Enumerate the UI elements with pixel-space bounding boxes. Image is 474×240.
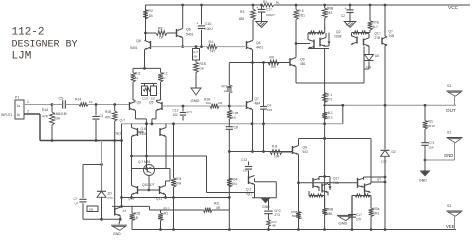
transistor Q13 bias xyxy=(137,186,139,194)
wire base Q8 to R4 line xyxy=(151,46,208,48)
svg-text:U6: U6 xyxy=(375,54,379,58)
svg-text:C10: C10 xyxy=(205,22,211,26)
svg-text:112-2: 112-2 xyxy=(12,27,45,39)
svg-text:R.1: R.1 xyxy=(327,93,332,97)
svg-text:1x1: 1x1 xyxy=(243,169,248,173)
svg-text:OUT: OUT xyxy=(446,108,456,113)
svg-text:21B8: 21B8 xyxy=(334,35,342,39)
svg-text:C?: C? xyxy=(74,197,78,201)
svg-text:R2L: R2L xyxy=(214,202,220,206)
resistor R16 xyxy=(51,105,53,113)
svg-text:Q-8: Q-8 xyxy=(141,127,147,131)
svg-text:P1: P1 xyxy=(15,96,19,100)
svg-text:GND: GND xyxy=(191,98,200,103)
svg-text:Q8: Q8 xyxy=(137,101,142,105)
resistor R31 xyxy=(369,208,374,217)
zener D2 xyxy=(381,150,390,156)
svg-text:S3: S3 xyxy=(447,204,451,208)
svg-text:Q1?: Q1? xyxy=(375,32,381,36)
GND terminal left xyxy=(119,219,120,224)
svg-text:Q9: Q9 xyxy=(300,58,305,62)
transistor Q18 output right xyxy=(364,184,366,193)
svg-text:Q.? MB1: Q.? MB1 xyxy=(138,160,151,164)
svg-text:5401: 5401 xyxy=(140,132,147,136)
svg-text:R?3: R?3 xyxy=(222,85,228,89)
svg-text:0R1V: 0R1V xyxy=(428,124,436,128)
VEE terminal xyxy=(447,210,463,212)
svg-text:4R: 4R xyxy=(216,206,221,210)
svg-text:10?: 10? xyxy=(356,218,362,222)
capacitor C2 rail bypass xyxy=(349,5,351,10)
trimmer wiring xyxy=(144,84,146,87)
transistor Q5 diff right xyxy=(156,99,161,102)
connector P1 input xyxy=(15,100,24,119)
ground solid zobel xyxy=(261,198,271,204)
VCC rail xyxy=(146,4,263,6)
svg-text:1B: 1B xyxy=(134,216,138,220)
svg-text:A?: A? xyxy=(123,209,127,213)
svg-text:C2: C2 xyxy=(341,14,345,18)
capacitor C12 xyxy=(182,106,184,112)
svg-text:(L)?: (L)? xyxy=(193,50,198,54)
bias node wire xyxy=(132,168,171,170)
svg-text:943: 943 xyxy=(303,150,309,154)
transistor Q17 output right xyxy=(357,178,359,188)
capacitor C15 on line xyxy=(348,214,356,216)
trimmer Q10 circle xyxy=(144,165,155,176)
svg-text:47K: 47K xyxy=(105,116,112,120)
resistor R17 chain xyxy=(227,110,232,119)
node base Q6 xyxy=(144,32,147,35)
svg-text:747: 747 xyxy=(210,50,216,54)
svg-text:R2B: R2B xyxy=(134,212,140,216)
svg-text:10A: 10A xyxy=(206,101,212,105)
svg-text:U?: U? xyxy=(377,178,381,182)
svg-text:C12: C12 xyxy=(173,109,179,113)
resistor R10 tail xyxy=(322,93,327,103)
resistor R2 xyxy=(143,10,148,20)
svg-text:1C?: 1C? xyxy=(381,160,387,164)
wire VAS corner to D1 xyxy=(363,69,365,83)
output RC chain x425 xyxy=(424,105,426,120)
resistor R9 xyxy=(268,60,279,65)
svg-text:Q11: Q11 xyxy=(156,196,162,200)
wire Q8d collector xyxy=(298,139,300,146)
wire right cluster emitter down xyxy=(351,196,353,230)
svg-text:103: 103 xyxy=(267,108,272,112)
capacitor C10 xyxy=(201,5,203,25)
svg-text:5401: 5401 xyxy=(130,46,138,50)
driver base line xyxy=(299,182,358,184)
transistor Q15 output left xyxy=(321,184,323,193)
resistor R25 xyxy=(227,178,232,187)
svg-text:R1: R1 xyxy=(164,212,168,216)
wire sensor down to OUT xyxy=(384,46,386,105)
svg-text:LJM: LJM xyxy=(12,51,32,63)
svg-text:Q1?: Q1? xyxy=(333,177,339,181)
svg-text:4401: 4401 xyxy=(256,46,263,50)
svg-text:1K: 1K xyxy=(89,100,93,104)
transistor Q9 xyxy=(289,58,291,66)
svg-text:4L1: 4L1 xyxy=(328,111,334,115)
ground GND mid xyxy=(191,88,201,95)
svg-text:5401: 5401 xyxy=(186,33,194,37)
wire Q8d emitter xyxy=(298,155,300,230)
bias emitter rail xyxy=(122,197,230,199)
svg-text:VCC: VCC xyxy=(448,5,459,11)
svg-text:104: 104 xyxy=(429,146,434,150)
resistor R15 xyxy=(114,105,116,112)
wire input bottom xyxy=(40,140,122,142)
svg-text:C4: C4 xyxy=(267,104,271,108)
node diff top xyxy=(143,67,146,70)
resistor R5 xyxy=(295,5,297,10)
resistor R4 xyxy=(207,44,217,49)
svg-text:R8: R8 xyxy=(158,27,162,31)
svg-text:+: + xyxy=(196,21,199,26)
left cluster loop xyxy=(319,176,330,178)
svg-text:R3a: R3a xyxy=(374,207,380,211)
svg-text:2?B: 2?B xyxy=(375,36,381,40)
svg-text:B1: B1 xyxy=(276,1,280,5)
svg-text:0L1: 0L1 xyxy=(328,116,334,120)
svg-text:Q5: Q5 xyxy=(149,101,154,105)
wire link out bus xyxy=(342,105,344,124)
svg-text:DESIGNER BY: DESIGNER BY xyxy=(12,40,78,51)
svg-text:5x: 5x xyxy=(135,76,139,80)
svg-text:R.2: R.2 xyxy=(162,72,167,76)
svg-text:4B: 4B xyxy=(272,224,276,228)
wire C8 chain down xyxy=(228,129,230,229)
svg-text:504: 504 xyxy=(232,182,238,186)
resistor R10b xyxy=(195,60,197,62)
svg-text:100: 100 xyxy=(271,65,277,69)
svg-text:GND: GND xyxy=(113,232,121,236)
svg-text:INPUT1: INPUT1 xyxy=(1,113,13,117)
svg-text:R4: R4 xyxy=(209,40,213,44)
svg-text:102: 102 xyxy=(173,113,179,117)
svg-text:C5: C5 xyxy=(59,97,64,101)
svg-text:DK: DK xyxy=(159,36,164,40)
svg-text:1B: 1B xyxy=(149,14,154,18)
resistor R22 xyxy=(131,221,133,230)
svg-text:U?: U? xyxy=(75,202,79,206)
svg-text:R.B: R.B xyxy=(272,145,277,149)
svg-text:C8: C8 xyxy=(234,126,238,130)
resistor R tail 2 xyxy=(322,112,327,119)
resistor R14 xyxy=(79,103,88,107)
svg-text:1B5: 1B5 xyxy=(239,17,245,21)
feedback takeoff wire xyxy=(132,155,207,157)
transistor Q8 driver xyxy=(292,146,294,154)
resistor R19 xyxy=(270,150,282,155)
feedback node wire xyxy=(162,105,210,107)
svg-text:DB: DB xyxy=(200,67,204,71)
svg-text:0K1: 0K1 xyxy=(327,11,333,15)
transistor Q13 lower diff left xyxy=(137,128,139,136)
svg-text:1A: 1A xyxy=(224,89,228,93)
svg-text:K3A: K3A xyxy=(54,117,61,121)
svg-text:0R1: 0R1 xyxy=(374,212,380,216)
label box left xyxy=(87,206,98,212)
wire C5 leads xyxy=(52,104,62,106)
svg-text:R.1B: R.1B xyxy=(232,111,239,115)
mirror loop diode xyxy=(328,33,330,46)
GND terminal mid xyxy=(337,214,353,216)
wire VAS feed xyxy=(146,124,148,169)
OUT terminal xyxy=(447,90,463,92)
driver mid wire xyxy=(299,138,372,140)
bottom stair wire xyxy=(112,205,150,207)
svg-text:R0B: R0B xyxy=(327,208,333,212)
diode D1 xyxy=(368,62,370,70)
rail junction dots xyxy=(181,4,184,7)
svg-text:4L?: 4L? xyxy=(373,25,379,29)
reference emitter row xyxy=(352,32,370,34)
svg-text:Jx(1): Jx(1) xyxy=(115,132,122,136)
ground hatch C11 xyxy=(256,22,268,28)
svg-text:1a: 1a xyxy=(17,104,21,108)
svg-text:50A: 50A xyxy=(176,182,183,186)
output node wire xyxy=(229,151,292,153)
transistor Q14 lower diff right xyxy=(159,128,161,136)
resistor R24 VAS load xyxy=(173,124,175,178)
OUT net wire xyxy=(325,104,343,106)
svg-text:C?1: C?1 xyxy=(429,141,435,145)
svg-text:9(1): 9(1) xyxy=(246,192,252,196)
wire OUT down to D2 xyxy=(384,105,386,149)
svg-text:Q-7: Q-7 xyxy=(120,119,126,123)
diode arrow left cluster xyxy=(328,187,331,190)
ground hatch C2 xyxy=(344,22,356,28)
svg-text:ZD: ZD xyxy=(108,192,113,196)
svg-text:2: 2 xyxy=(27,110,29,114)
resistor R21 parallel xyxy=(150,209,204,211)
svg-text:D2: D2 xyxy=(392,150,396,154)
transistor Q14 output left xyxy=(312,178,314,188)
wire pin2 xyxy=(24,113,40,115)
transistor Q5 sensor xyxy=(381,38,383,45)
wire VCC drop left xyxy=(145,5,147,33)
capacitor C4 chain xyxy=(263,63,265,107)
transistor Q3 diff left xyxy=(133,99,136,102)
svg-text:Q8: Q8 xyxy=(136,39,141,43)
svg-text:1M: 1M xyxy=(218,101,223,105)
Q12 emitter loop xyxy=(255,181,277,183)
mirror base row xyxy=(308,32,325,34)
transistor Q18 protection xyxy=(114,141,116,208)
svg-text:C13: C13 xyxy=(241,158,247,162)
svg-text:47K: 47K xyxy=(42,115,49,119)
svg-text:5x: 5x xyxy=(162,76,166,80)
svg-text:Q2: Q2 xyxy=(336,30,341,34)
resistor R3 xyxy=(252,5,254,9)
wire Q9 collector to mirror xyxy=(296,43,310,45)
svg-text:DD1: DD1 xyxy=(299,14,306,18)
svg-text:GND: GND xyxy=(339,221,348,226)
capacitor C1 input shunt xyxy=(95,105,97,116)
capacitor C14 xyxy=(268,198,270,210)
resistor R8 xyxy=(146,32,157,34)
svg-text:1/B: 1/B xyxy=(89,207,94,211)
svg-text:R9: R9 xyxy=(270,56,274,60)
svg-text:C1: C1 xyxy=(100,114,104,118)
svg-text:C1?: C1? xyxy=(266,8,272,12)
svg-text:14B: 14B xyxy=(389,34,395,38)
wire Q4 emitter to Q9 base xyxy=(229,62,290,64)
svg-text:Q8: Q8 xyxy=(303,146,308,150)
wire VAS bottom xyxy=(296,82,364,84)
boxed resistor RB xyxy=(195,47,197,49)
svg-text:R2: R2 xyxy=(149,9,153,13)
svg-text:Q6: Q6 xyxy=(186,28,191,32)
svg-text:S2: S2 xyxy=(447,84,451,88)
VEE rail xyxy=(132,229,456,231)
wire pair down xyxy=(363,50,365,69)
bias base wire xyxy=(138,189,160,191)
resistor R7 xyxy=(369,5,371,21)
svg-text:S1: S1 xyxy=(447,131,451,135)
svg-text:VEE: VEE xyxy=(446,224,455,229)
resistor R13 chain upper xyxy=(228,63,230,86)
wire L corner xyxy=(206,156,208,193)
trimmer box left xyxy=(142,86,148,96)
diff emitter wires xyxy=(136,118,147,120)
svg-text:100U: 100U xyxy=(205,27,213,31)
svg-text:Q?: Q? xyxy=(389,30,393,34)
transistor Q12 xyxy=(248,176,250,184)
transistor Q4 xyxy=(246,41,248,49)
capacitor C8 xyxy=(226,126,233,128)
svg-text:GND: GND xyxy=(444,153,453,158)
svg-text:R2L: R2L xyxy=(428,120,434,124)
svg-text:4B4: 4B4 xyxy=(255,102,261,106)
right cluster emitter resistors xyxy=(355,194,362,197)
wire base bottom xyxy=(83,218,120,220)
ground solid right xyxy=(420,171,431,177)
transistor Q7 xyxy=(246,101,248,109)
resistor R26 xyxy=(268,214,270,220)
svg-text:1(?): 1(?) xyxy=(187,110,192,114)
wire diff top xyxy=(133,67,161,69)
transistor Q2 xyxy=(313,40,315,49)
GND stub wire xyxy=(425,159,455,161)
left cluster emitter resistors xyxy=(309,194,316,197)
svg-text:R1: R1 xyxy=(263,0,267,4)
mirror emitter join xyxy=(308,48,329,50)
svg-text:R04: R04 xyxy=(232,178,238,182)
svg-text:R7B: R7B xyxy=(373,21,379,25)
wire pin1 xyxy=(24,104,52,106)
mirror tail chain xyxy=(324,49,326,230)
VEE rail dots xyxy=(159,228,162,231)
resistor R20 xyxy=(296,212,301,220)
transistor Q3 xyxy=(319,38,321,47)
svg-text:4B1: 4B1 xyxy=(300,62,306,66)
wire left drop cap xyxy=(82,165,84,199)
resistor R11 xyxy=(132,68,134,72)
svg-text:R.5: R.5 xyxy=(299,9,304,13)
svg-text:Q10 B?T: Q10 B?T xyxy=(142,183,155,187)
zener ZD xyxy=(101,141,103,165)
transistor Q1b xyxy=(363,39,365,46)
svg-text:R11: R11 xyxy=(135,72,141,76)
svg-text:104: 104 xyxy=(274,155,280,159)
svg-text:1L1: 1L1 xyxy=(366,65,371,69)
svg-text:5?1: 5?1 xyxy=(327,98,333,102)
svg-text:Q7: Q7 xyxy=(255,97,260,101)
transistor Q1a xyxy=(356,37,358,44)
capacitor C1b xyxy=(79,198,86,200)
svg-text:1: 1 xyxy=(27,100,29,104)
svg-text:R1B: R1B xyxy=(200,62,206,66)
capacitor C5 xyxy=(62,100,64,108)
resistor R18 xyxy=(210,104,219,109)
capacitor C11 rail bypass xyxy=(261,5,263,10)
GND terminal xyxy=(447,137,463,139)
capacitor C13 xyxy=(248,162,250,166)
svg-text:1B: 1B xyxy=(232,116,236,120)
svg-text:R?4: R?4 xyxy=(176,177,182,181)
wire right drop xyxy=(370,139,372,183)
svg-text:100U?: 100U? xyxy=(266,13,275,17)
svg-text:R1B: R1B xyxy=(105,110,111,114)
svg-text:?4B: ?4B xyxy=(333,181,339,185)
transistor Q11 bias xyxy=(159,186,161,194)
resistor R30 tail bottom xyxy=(322,208,327,215)
wire VCC drop right xyxy=(384,5,386,36)
resistor R6 xyxy=(324,5,326,8)
svg-text:Q.2: Q.2 xyxy=(246,188,251,192)
svg-text:R14: R14 xyxy=(75,98,81,102)
svg-text:50k: 50k xyxy=(292,214,297,218)
resistor R12 xyxy=(160,68,162,72)
svg-text:1NB41B/: 1NB41B/ xyxy=(54,112,67,116)
svg-text:R16: R16 xyxy=(42,108,48,112)
svg-text:2?3: 2?3 xyxy=(275,213,281,217)
svg-text:0B1: 0B1 xyxy=(327,212,333,216)
svg-text:R3: R3 xyxy=(240,10,244,14)
svg-text:C1?: C1? xyxy=(356,213,362,217)
wire left bottom horiz xyxy=(83,164,102,166)
transistor Q6 xyxy=(176,29,178,37)
resistor R1 series in VCC rail xyxy=(262,3,274,7)
wire long drop left xyxy=(121,124,123,207)
svg-text:1b: 1b xyxy=(17,113,21,117)
wire to diff pair xyxy=(96,104,130,106)
svg-text:0B: 0B xyxy=(194,55,198,59)
mid bus wire xyxy=(122,123,343,125)
resistor R23 xyxy=(160,221,162,230)
svg-text:R6B: R6B xyxy=(327,7,333,11)
svg-text:P?1: P?1 xyxy=(108,196,114,200)
svg-text:Q4: Q4 xyxy=(256,41,261,45)
trimmer box right xyxy=(151,86,157,96)
svg-text:C10: C10 xyxy=(142,97,148,101)
transistor Q8 front xyxy=(145,33,147,41)
svg-text:GND: GND xyxy=(419,179,427,183)
